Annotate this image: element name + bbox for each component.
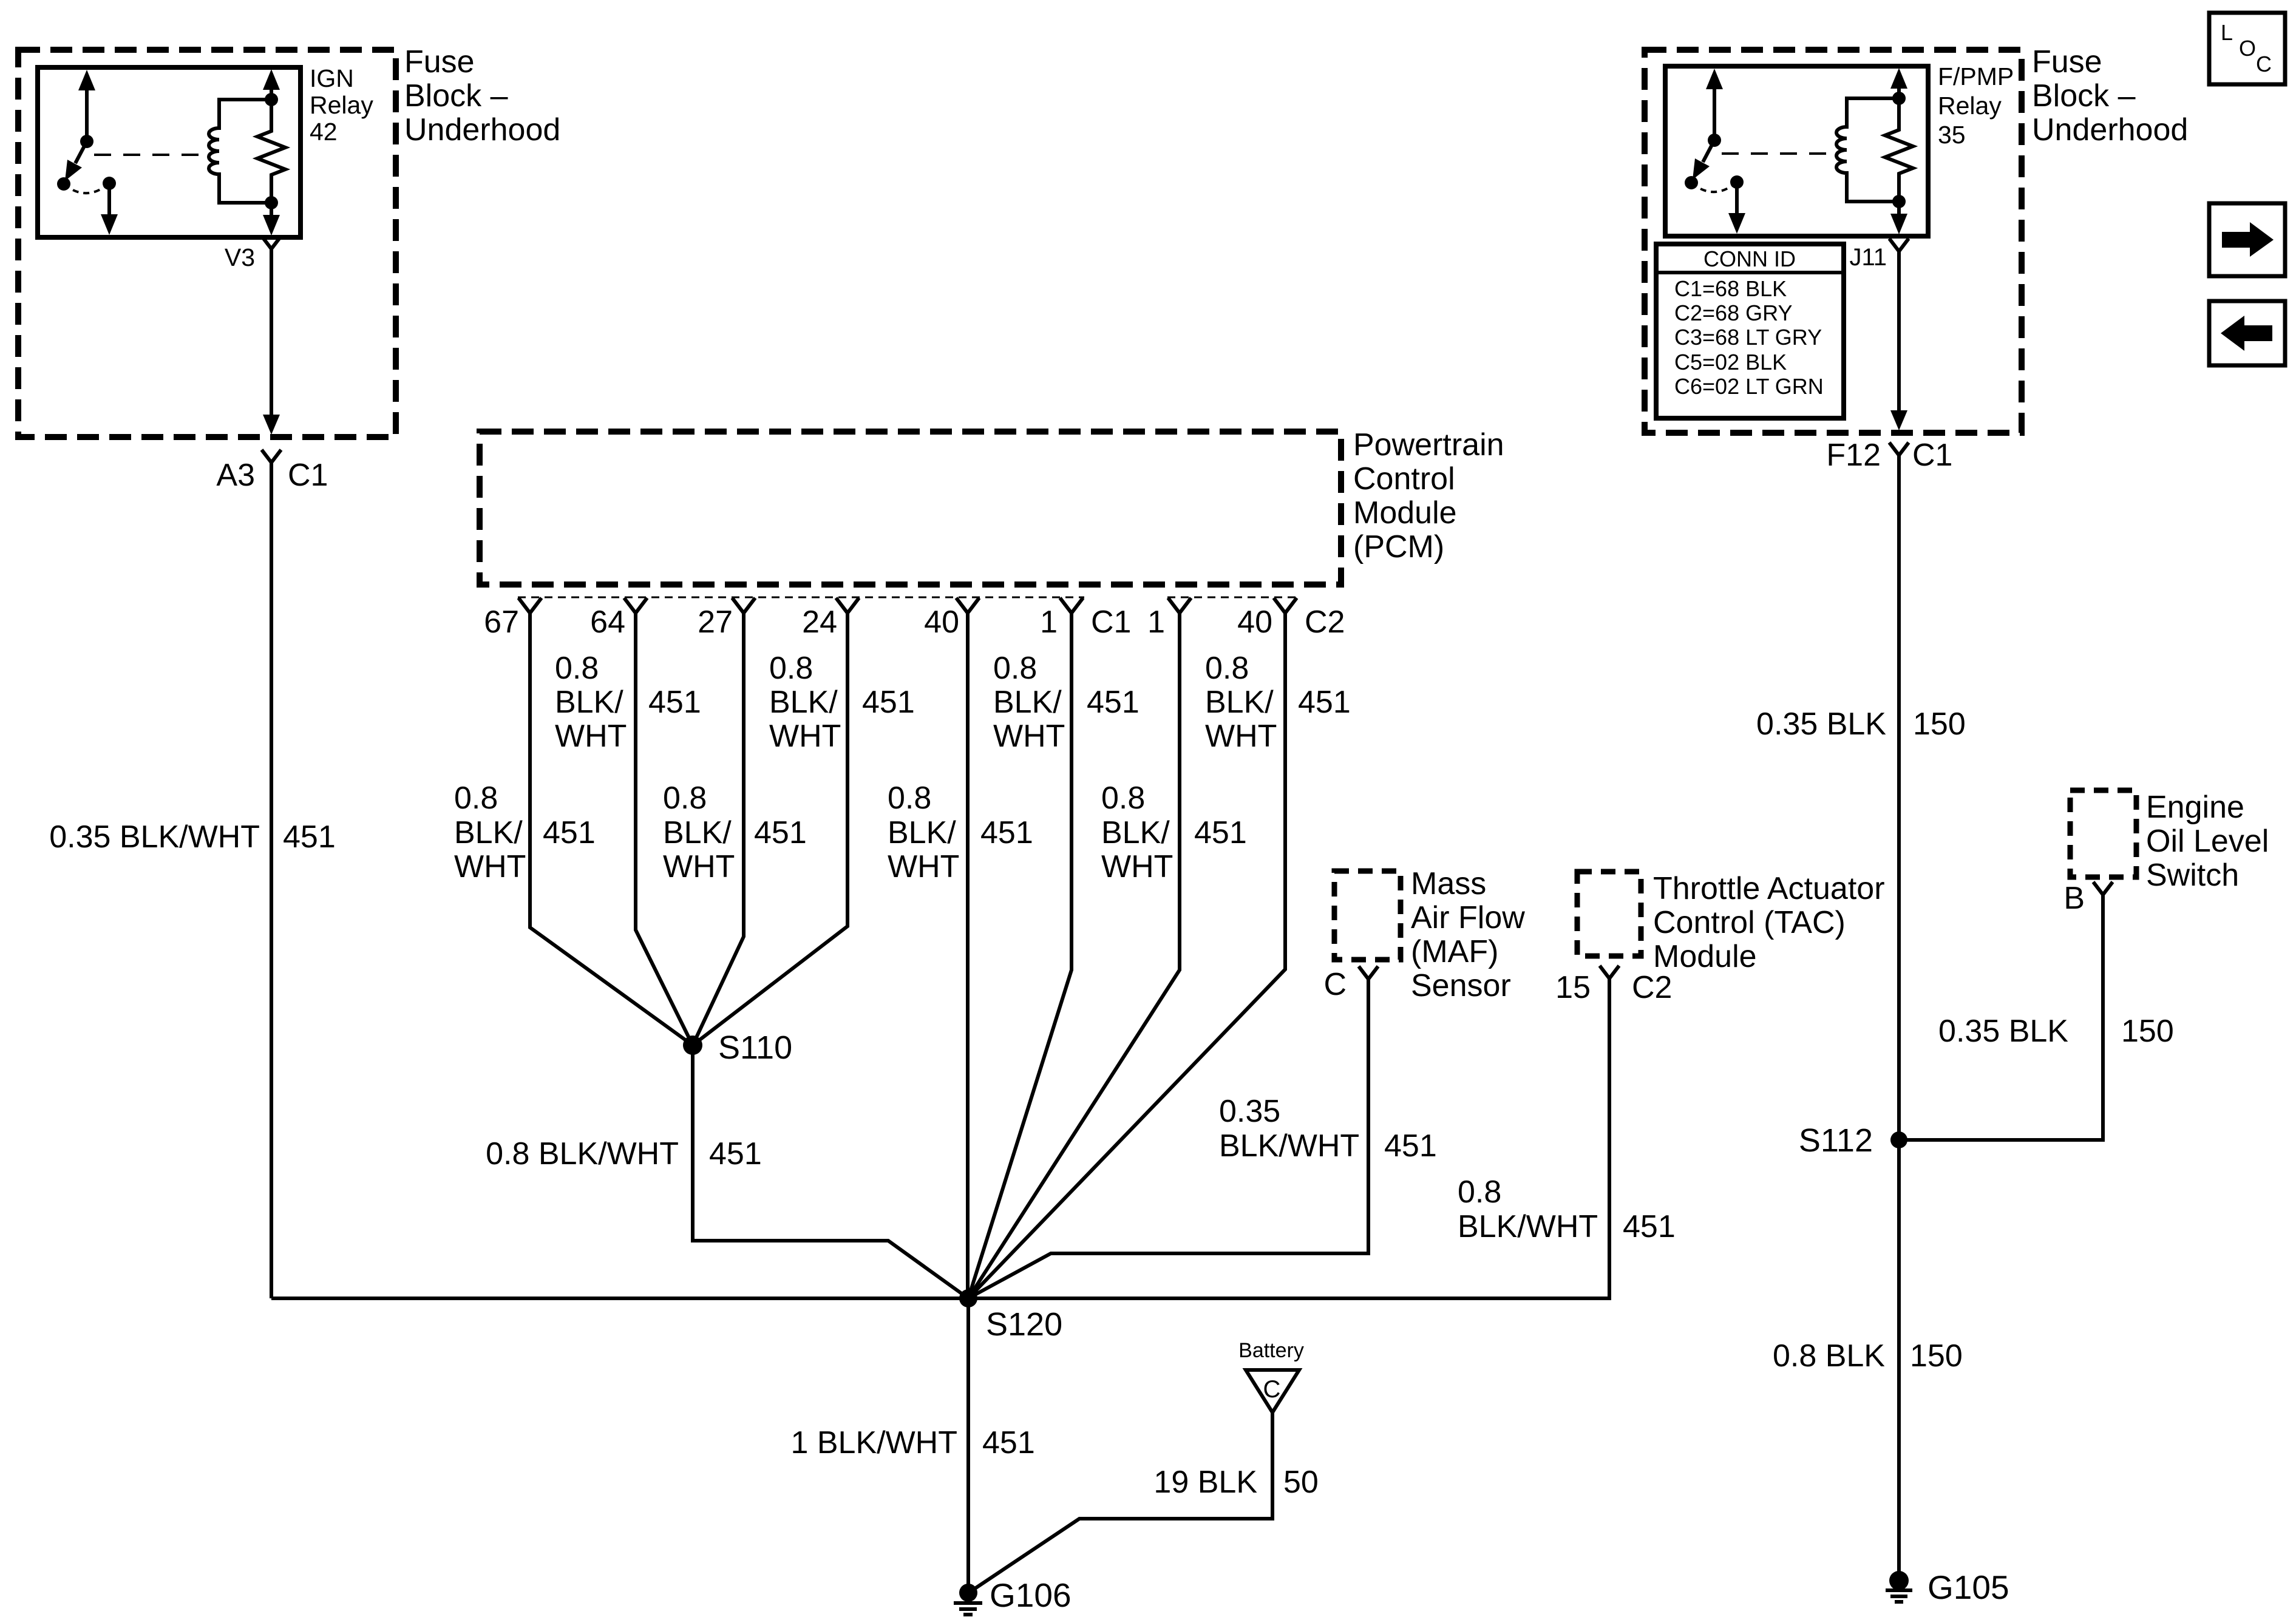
wire label 0.8 BLK/WHT 451 (454, 781, 596, 884)
svg-text:Module: Module (1353, 495, 1457, 531)
label C1 (1091, 605, 1131, 640)
label F/PMP Relay 35 (1938, 63, 2014, 149)
PCM connector C2 dashed line (1167, 597, 1298, 598)
splice S110 (683, 1029, 792, 1066)
label Engine Oil Level Switch (2146, 790, 2269, 893)
svg-text:40: 40 (1237, 605, 1272, 640)
svg-text:C2=68 GRY: C2=68 GRY (1674, 300, 1792, 325)
svg-text:Underhood: Underhood (2032, 112, 2188, 147)
LOC legend box (2209, 13, 2285, 84)
svg-text:0.8: 0.8 (993, 651, 1037, 686)
svg-text:451: 451 (709, 1136, 762, 1171)
wire pin40 C1 to S120 (966, 613, 970, 1298)
svg-text:451: 451 (1384, 1128, 1437, 1164)
svg-text:Switch: Switch (2146, 858, 2239, 893)
svg-text:1: 1 (1040, 605, 1058, 640)
svg-text:BLK/: BLK/ (769, 685, 838, 720)
svg-text:50: 50 (1283, 1465, 1319, 1500)
svg-text:BLK/WHT: BLK/WHT (1219, 1128, 1359, 1164)
PCM pin 1 (1040, 598, 1083, 640)
svg-text:C2: C2 (1305, 605, 1345, 640)
label Throttle Actuator Control (TAC) Module (1653, 871, 1885, 974)
svg-text:0.8 BLK/WHT: 0.8 BLK/WHT (486, 1136, 679, 1171)
PCM pin 67 (484, 598, 542, 640)
wire 150 from F12 down to G105 (1897, 455, 1901, 1581)
svg-text:Relay: Relay (1938, 92, 2002, 120)
svg-text:G106: G106 (990, 1576, 1072, 1614)
connector F12 / C1 (1826, 438, 1952, 473)
svg-text:0.8: 0.8 (1205, 651, 1249, 686)
wire pin24 to S110 (693, 613, 847, 1045)
svg-text:Underhood: Underhood (404, 112, 560, 147)
svg-text:S120: S120 (986, 1306, 1062, 1343)
svg-text:451: 451 (648, 685, 701, 720)
svg-text:CONN ID: CONN ID (1703, 246, 1796, 271)
wire pin27 to S110 (693, 613, 744, 1045)
svg-text:150: 150 (1910, 1338, 1963, 1374)
svg-text:IGN: IGN (310, 64, 354, 92)
svg-text:Air Flow: Air Flow (1411, 900, 1525, 935)
svg-text:WHT: WHT (993, 719, 1065, 754)
PCM dashed box (480, 432, 1341, 585)
PCM pin 64 (590, 598, 647, 640)
PCM pin 40 (1237, 598, 1297, 640)
svg-text:451: 451 (1298, 685, 1351, 720)
svg-text:0.8: 0.8 (555, 651, 599, 686)
svg-text:S112: S112 (1799, 1122, 1873, 1159)
wire label 0.8 BLK/WHT 451 (888, 781, 1033, 884)
svg-text:Oil Level: Oil Level (2146, 824, 2269, 859)
wire pin40 C2 to S120 (968, 613, 1285, 1298)
svg-text:WHT: WHT (888, 849, 959, 884)
label 0.35 BLK/WHT 451 (49, 819, 336, 855)
svg-text:L: L (2221, 20, 2233, 45)
svg-text:C: C (1263, 1376, 1281, 1403)
svg-text:451: 451 (1087, 685, 1140, 720)
svg-text:C1: C1 (1091, 605, 1131, 640)
svg-text:0.8: 0.8 (1101, 781, 1145, 816)
MAF sensor dashed box (1334, 871, 1401, 960)
svg-text:C3=68 LT GRY: C3=68 LT GRY (1674, 325, 1822, 350)
svg-text:BLK/: BLK/ (454, 815, 523, 850)
svg-text:A3: A3 (216, 458, 255, 493)
svg-text:27: 27 (698, 605, 733, 640)
svg-text:451: 451 (862, 685, 915, 720)
svg-text:BLK/: BLK/ (555, 685, 623, 720)
splice S120 (959, 1289, 1062, 1343)
svg-text:Mass: Mass (1411, 866, 1486, 901)
connector A3 / C1 (216, 450, 328, 493)
svg-text:WHT: WHT (769, 719, 841, 754)
svg-text:F12: F12 (1826, 438, 1881, 473)
svg-text:0.35 BLK: 0.35 BLK (1756, 707, 1886, 742)
svg-text:BLK/: BLK/ (663, 815, 732, 850)
svg-text:42: 42 (310, 118, 338, 146)
wire pin67 to S110 (530, 613, 693, 1045)
connector J11 (1849, 239, 1909, 271)
wire TAC to S120 (968, 978, 1609, 1298)
svg-text:Throttle Actuator: Throttle Actuator (1653, 871, 1885, 906)
svg-text:451: 451 (1194, 815, 1247, 850)
wire oil switch to S112 (1899, 895, 2103, 1140)
label C2 (1305, 605, 1345, 640)
svg-text:Battery: Battery (1238, 1339, 1304, 1362)
svg-text:Control (TAC): Control (TAC) (1653, 905, 1846, 940)
svg-text:WHT: WHT (555, 719, 627, 754)
svg-text:451: 451 (754, 815, 807, 850)
ground G106 (954, 1576, 1072, 1615)
svg-text:WHT: WHT (663, 849, 735, 884)
label 0.35 BLK 150 (oil switch) (1938, 1014, 2174, 1049)
label 0.8 BLK/WHT 451 (486, 1136, 762, 1171)
svg-text:Module: Module (1653, 939, 1757, 974)
svg-text:WHT: WHT (454, 849, 526, 884)
svg-text:0.8: 0.8 (1458, 1175, 1501, 1210)
svg-text:150: 150 (2121, 1014, 2174, 1049)
svg-text:Fuse: Fuse (404, 44, 475, 80)
svg-text:Block –: Block – (2032, 78, 2136, 114)
svg-text:15: 15 (1555, 970, 1591, 1005)
wire label 0.8 BLK/WHT 451 (555, 651, 701, 754)
wire S110 to S120 (693, 1045, 968, 1298)
svg-text:F/PMP: F/PMP (1938, 63, 2014, 90)
svg-text:WHT: WHT (1101, 849, 1173, 884)
label Powertrain Control Module (PCM) (1353, 427, 1504, 564)
PCM connector C1 dashed line (518, 597, 1084, 598)
oil switch pin B (2063, 881, 2113, 916)
svg-text:0.8: 0.8 (888, 781, 931, 816)
wire relay42 output to fuse block edge (263, 249, 280, 435)
wire pin64 to S110 (636, 613, 693, 1045)
splice S112 (1799, 1122, 1907, 1159)
PCM pin 24 (802, 598, 859, 640)
wire pin1 C1 to S120 (968, 613, 1072, 1298)
fuse block underhood (left) dashed box (18, 50, 396, 437)
label Fuse Block - Underhood (right) (2032, 44, 2188, 147)
label 0.8 BLK 150 (1773, 1338, 1963, 1374)
label 1 BLK/WHT 451 (791, 1425, 1035, 1460)
TAC pin 15 / C2 (1555, 966, 1672, 1005)
svg-text:B: B (2063, 881, 2085, 916)
svg-text:BLK/: BLK/ (1101, 815, 1170, 850)
wire label 0.8 BLK/WHT 451 (1101, 781, 1247, 884)
svg-text:0.35 BLK/WHT: 0.35 BLK/WHT (49, 819, 260, 855)
label 0.35 BLK/WHT 451 (1219, 1094, 1437, 1164)
svg-text:C1: C1 (288, 458, 328, 493)
svg-text:Block –: Block – (404, 78, 508, 114)
svg-text:Control: Control (1353, 461, 1455, 497)
TAC module dashed box (1577, 872, 1641, 956)
svg-text:C1=68 BLK: C1=68 BLK (1674, 276, 1787, 301)
svg-text:0.8: 0.8 (454, 781, 498, 816)
svg-text:BLK/: BLK/ (888, 815, 956, 850)
svg-text:451: 451 (980, 815, 1033, 850)
arrow box left (2209, 301, 2285, 365)
PCM pin 40 (924, 598, 979, 640)
svg-text:451: 451 (982, 1425, 1035, 1460)
svg-text:0.8: 0.8 (769, 651, 813, 686)
relay 42 (IGN relay) (38, 67, 301, 237)
svg-text:64: 64 (590, 605, 625, 640)
svg-text:C1: C1 (1912, 438, 1952, 473)
svg-text:S110: S110 (718, 1029, 792, 1066)
label 0.35 BLK 150 (1756, 707, 1966, 742)
svg-text:451: 451 (1623, 1209, 1676, 1244)
svg-text:451: 451 (543, 815, 596, 850)
fuse block underhood (right) dashed box (1645, 50, 2022, 433)
wire label 0.8 BLK/WHT 451 (1205, 651, 1351, 754)
PCM pin 27 (698, 598, 755, 640)
svg-text:C: C (2256, 52, 2272, 76)
svg-text:40: 40 (924, 605, 959, 640)
svg-text:35: 35 (1938, 121, 1966, 149)
PCM pin 1 (1147, 598, 1191, 640)
svg-text:V3: V3 (225, 243, 255, 271)
connector V3 (225, 236, 281, 271)
wire MAF to S120 (968, 979, 1368, 1298)
svg-text:67: 67 (484, 605, 519, 640)
svg-text:C5=02 BLK: C5=02 BLK (1674, 350, 1787, 375)
label IGN Relay 42 (310, 64, 373, 146)
svg-text:Powertrain: Powertrain (1353, 427, 1504, 463)
svg-text:0.8: 0.8 (663, 781, 707, 816)
CONN ID table (1656, 244, 1844, 418)
svg-text:BLK/WHT: BLK/WHT (1458, 1209, 1598, 1244)
label Mass Air Flow (MAF) Sensor (1411, 866, 1525, 1003)
svg-text:Engine: Engine (2146, 790, 2244, 825)
wire label 0.8 BLK/WHT 451 (769, 651, 915, 754)
wire relay35 output to fuse block edge (1890, 251, 1907, 430)
svg-text:BLK/: BLK/ (993, 685, 1062, 720)
svg-text:1: 1 (1147, 605, 1165, 640)
wire battery to G106 (971, 1412, 1272, 1591)
svg-text:(MAF): (MAF) (1411, 934, 1498, 969)
wire label 0.8 BLK/WHT 451 (663, 781, 807, 884)
arrow box right (2209, 203, 2285, 276)
label 19 BLK 50 (1153, 1465, 1318, 1500)
svg-text:O: O (2239, 36, 2256, 61)
label Fuse Block - Underhood (left) (404, 44, 560, 147)
svg-text:(PCM): (PCM) (1353, 529, 1444, 564)
wire bus left segment to S120 (271, 1297, 968, 1300)
svg-text:C2: C2 (1632, 970, 1672, 1005)
svg-text:0.35: 0.35 (1219, 1094, 1280, 1129)
wire pin1 C2 to S120 (968, 613, 1180, 1298)
wire 451 from A3 down (270, 463, 273, 1298)
svg-text:451: 451 (283, 819, 336, 855)
MAF pin C (1323, 966, 1378, 1002)
svg-text:J11: J11 (1849, 244, 1887, 271)
svg-text:Relay: Relay (310, 91, 373, 119)
svg-text:WHT: WHT (1205, 719, 1277, 754)
svg-text:1 BLK/WHT: 1 BLK/WHT (791, 1425, 958, 1460)
svg-text:0.8 BLK: 0.8 BLK (1773, 1338, 1885, 1374)
svg-text:Sensor: Sensor (1411, 968, 1511, 1003)
svg-text:C6=02 LT GRN: C6=02 LT GRN (1674, 374, 1824, 399)
wire label 0.8 BLK/WHT 451 (993, 651, 1140, 754)
ground G105 (1886, 1568, 2009, 1606)
svg-text:BLK/: BLK/ (1205, 685, 1274, 720)
svg-text:24: 24 (802, 605, 837, 640)
svg-text:0.35 BLK: 0.35 BLK (1938, 1014, 2068, 1049)
svg-text:150: 150 (1913, 707, 1966, 742)
svg-text:C: C (1323, 967, 1347, 1002)
relay 35 (F/PMP relay) (1665, 66, 1928, 236)
svg-text:G105: G105 (1927, 1568, 2009, 1606)
label 0.8 BLK/WHT 451 (1458, 1175, 1676, 1244)
svg-text:19 BLK: 19 BLK (1153, 1465, 1257, 1500)
svg-text:Fuse: Fuse (2032, 44, 2102, 80)
engine oil level switch dashed box (2070, 790, 2136, 877)
wire S120 to G106 (966, 1298, 970, 1593)
battery feed triangle C (1238, 1339, 1304, 1412)
